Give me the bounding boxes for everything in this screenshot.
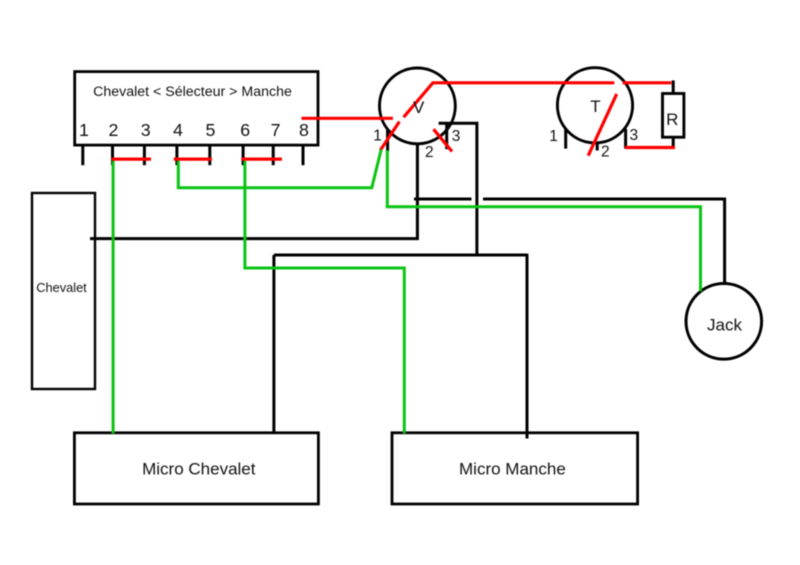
svg-text:2: 2: [425, 144, 434, 161]
svg-text:8: 8: [299, 120, 309, 140]
red V wiper lower segment: [380, 122, 399, 151]
wire to jack segment 2 and drop: [483, 199, 725, 285]
T pot pin 3 stub: [624, 129, 627, 149]
svg-text:2: 2: [108, 120, 118, 140]
red T wiper: [588, 94, 617, 156]
green wire V pin 1 to jack: [387, 150, 700, 291]
red wire T to resistor top: [623, 81, 672, 84]
svg-text:T: T: [590, 97, 600, 116]
wire V pin 2 to Chevalet box: [90, 143, 417, 239]
svg-text:7: 7: [271, 120, 281, 140]
resistor top stub: [672, 80, 675, 93]
wire to jack segment 1: [414, 198, 472, 201]
V pot pin 1 stub: [386, 130, 389, 151]
wire horizontal bus to micros: [274, 254, 527, 257]
svg-text:3: 3: [452, 128, 461, 145]
red jumper pins 4-5: [174, 158, 212, 161]
micro chevalet box: [74, 433, 318, 504]
resistor bottom stub: [672, 137, 675, 149]
svg-text:R: R: [666, 110, 678, 129]
svg-text:Chevalet < Sélecteur > Manche: Chevalet < Sélecteur > Manche: [93, 84, 292, 100]
wire V pin 3 corner down: [439, 123, 477, 255]
V pot pin 3 stub: [445, 123, 448, 149]
red jumper pins 6-7: [241, 158, 282, 161]
svg-text:Chevalet: Chevalet: [36, 280, 87, 295]
red jumper pins 2-3: [112, 158, 152, 161]
svg-text:4: 4: [173, 120, 183, 140]
wire drop to Micro Manche: [526, 254, 529, 439]
T pot pin 2 stub: [596, 142, 599, 151]
green wire selector pin 6 to Micro Manche: [245, 161, 404, 434]
red slash at V pin 3: [434, 129, 453, 151]
chevalet box: [32, 193, 95, 389]
svg-text:1: 1: [373, 128, 382, 145]
selector pin 8 stub: [302, 145, 305, 165]
resistor R body: [663, 94, 684, 138]
selector pin 3 stub: [143, 145, 146, 165]
svg-text:Micro Manche: Micro Manche: [459, 460, 566, 479]
svg-text:5: 5: [206, 120, 216, 140]
selector pin 6 stub: [242, 145, 245, 165]
selector box: [75, 72, 318, 146]
red wire selector pin 8 toward V: [302, 117, 393, 120]
green wire selector pin 2 to Micro Chevalet: [112, 161, 115, 434]
svg-text:1: 1: [79, 120, 89, 140]
wire drop to Micro Chevalet: [272, 255, 275, 434]
svg-text:Micro Chevalet: Micro Chevalet: [142, 460, 256, 479]
volume pot V circle: [380, 68, 456, 144]
svg-text:1: 1: [549, 128, 558, 145]
selector pin 7 stub: [272, 145, 275, 165]
T pot pin 1 stub: [564, 129, 567, 149]
green wire selector pin 4 to V pin 1: [178, 149, 381, 187]
svg-text:3: 3: [141, 120, 151, 140]
svg-text:6: 6: [240, 120, 250, 140]
selector pin 2 stub: [111, 145, 114, 165]
selector pin 1 stub: [81, 145, 84, 165]
selector pin 5 stub: [208, 145, 211, 165]
micro manche box: [392, 433, 638, 504]
selector pin 4 stub: [175, 145, 178, 165]
red V wiper upper segment and wire to T: [404, 83, 615, 117]
svg-text:V: V: [413, 98, 425, 117]
tone pot T circle: [557, 68, 632, 143]
svg-text:2: 2: [601, 143, 610, 160]
red wire T pin 3 to resistor bottom: [625, 146, 675, 149]
svg-text:Jack: Jack: [707, 316, 742, 335]
jack circle: [686, 284, 762, 360]
svg-text:3: 3: [629, 127, 638, 144]
